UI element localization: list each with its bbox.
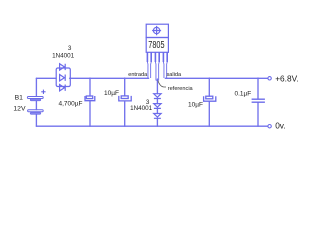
svg-text:referencia: referencia (168, 86, 194, 92)
svg-text:12V: 12V (13, 106, 26, 113)
svg-text:1N4001: 1N4001 (52, 52, 75, 59)
svg-text:3: 3 (68, 45, 72, 52)
svg-text:+6.8V.: +6.8V. (275, 73, 298, 83)
svg-text:0v.: 0v. (275, 121, 285, 131)
svg-text:salida: salida (166, 72, 182, 78)
svg-text:0.1µF: 0.1µF (235, 90, 252, 97)
svg-text:7805: 7805 (148, 40, 164, 51)
svg-text:10µF: 10µF (104, 90, 119, 97)
svg-text:4,700µF: 4,700µF (59, 100, 83, 107)
svg-text:entrada: entrada (128, 72, 148, 78)
svg-text:B1: B1 (15, 94, 24, 101)
svg-text:10µF: 10µF (188, 101, 203, 108)
svg-text:1N4001: 1N4001 (130, 105, 153, 112)
